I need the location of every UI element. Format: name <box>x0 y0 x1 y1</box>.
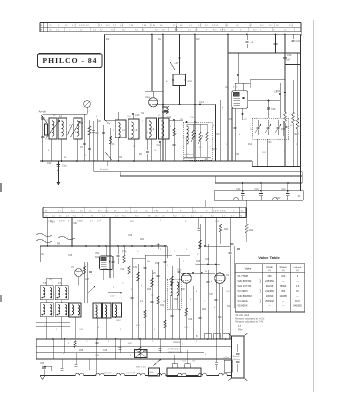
svg-text:V1a: V1a <box>145 95 150 99</box>
svg-text:C40: C40 <box>236 189 241 191</box>
svg-text:V1 77DB: V1 77DB <box>237 274 248 278</box>
svg-text:C.17 C.99: C.17 C.99 <box>126 373 136 375</box>
svg-text:6.8 W: 6.8 W <box>213 211 220 213</box>
svg-text:C22: C22 <box>47 162 52 165</box>
svg-text:2M: 2M <box>180 119 183 121</box>
svg-text:R C: R C <box>269 25 273 27</box>
svg-text:AC: AC <box>41 253 45 256</box>
svg-text:All volts rated: All volts rated <box>235 314 250 317</box>
svg-text:C31: C31 <box>133 267 138 269</box>
svg-text:R23: R23 <box>103 269 108 271</box>
svg-text:C10: C10 <box>135 114 140 117</box>
svg-text:V92: V92 <box>95 253 100 255</box>
svg-text:145-150: 145-150 <box>104 373 112 375</box>
svg-text:C36: C36 <box>188 319 193 321</box>
svg-text:R C: R C <box>98 211 102 213</box>
svg-text:M: M <box>142 30 144 32</box>
svg-text:R19: R19 <box>196 261 201 263</box>
svg-text:C45: C45 <box>103 350 108 352</box>
svg-text:Anode: Anode <box>266 266 273 269</box>
svg-text:M: M <box>91 216 93 218</box>
svg-text:245/90: 245/90 <box>266 295 274 298</box>
svg-text:Pilot: Pilot <box>238 328 243 331</box>
svg-text:6.8 W: 6.8 W <box>212 25 219 27</box>
svg-text:C37: C37 <box>209 294 214 296</box>
svg-text:C34: C34 <box>160 305 165 307</box>
svg-text:C17: C17 <box>213 148 218 151</box>
svg-text:C42: C42 <box>281 189 286 191</box>
svg-text:C.17: C.17 <box>110 296 115 298</box>
svg-text:Measure calculated at -A.2V.: Measure calculated at -A.2V. <box>235 317 265 320</box>
svg-text:90/245: 90/245 <box>266 285 274 288</box>
svg-text:C28: C28 <box>205 259 210 261</box>
svg-text:on Record: on Record <box>184 153 194 156</box>
svg-text:a.M switch: a.M switch <box>184 157 195 160</box>
svg-text:change circuit: change circuit <box>168 351 182 354</box>
svg-text:C/d: C/d <box>187 79 192 83</box>
svg-text:8uF: 8uF <box>218 317 223 319</box>
svg-text:R12: R12 <box>248 144 253 146</box>
svg-text:V3 42DX: V3 42DX <box>237 289 248 293</box>
svg-text:(V): (V) <box>268 270 271 272</box>
svg-text:R20: R20 <box>249 230 254 232</box>
svg-text:R17: R17 <box>295 134 300 136</box>
svg-text:(V): (V) <box>296 270 299 272</box>
svg-text:R11: R11 <box>155 262 160 265</box>
svg-text:C26: C26 <box>128 235 133 237</box>
svg-text:3M: 3M <box>147 261 150 263</box>
svg-text:V2b 80XXM: V2b 80XXM <box>237 279 251 283</box>
svg-text:R21: R21 <box>224 228 229 231</box>
svg-text:C25: C25 <box>68 255 73 257</box>
svg-text:Cathode: Cathode <box>293 266 302 269</box>
svg-text:C18: C18 <box>287 54 292 57</box>
svg-text:100/85: 100/85 <box>280 295 288 298</box>
svg-text:V1b: V1b <box>177 269 182 272</box>
svg-text:240/250: 240/250 <box>265 290 274 293</box>
svg-text:M50 C.05: M50 C.05 <box>136 367 146 369</box>
svg-text:6.8 W: 6.8 W <box>220 30 227 32</box>
svg-text:5uF: 5uF <box>286 59 291 62</box>
svg-text:Screen: Screen <box>280 266 288 269</box>
svg-text:10K: 10K <box>181 289 186 291</box>
svg-text:Aerial: Aerial <box>39 110 47 114</box>
svg-text:C24: C24 <box>235 154 240 156</box>
svg-text:R.switch: R.switch <box>100 168 109 171</box>
svg-text:R33: R33 <box>50 221 55 224</box>
svg-text:R24: R24 <box>140 239 145 241</box>
svg-text:245/250: 245/250 <box>265 280 274 283</box>
svg-text:R29: R29 <box>202 309 207 311</box>
svg-text:R C: R C <box>71 211 75 213</box>
svg-text:C(x): C(x) <box>62 165 67 168</box>
svg-text:C50: C50 <box>40 363 45 365</box>
svg-text:C38: C38 <box>271 108 276 111</box>
svg-text:R35: R35 <box>79 350 84 352</box>
svg-text:1W: 1W <box>250 129 253 131</box>
svg-text:250: 250 <box>268 275 273 278</box>
svg-text:V2a 1X77M: V2a 1X77M <box>237 284 251 288</box>
svg-text:C12: C12 <box>157 144 162 147</box>
svg-text:V4 42AA: V4 42AA <box>237 299 248 303</box>
svg-text:100: 100 <box>281 275 286 278</box>
svg-text:R26: R26 <box>147 289 152 291</box>
svg-text:C13: C13 <box>199 100 204 104</box>
svg-text:V1b: V1b <box>120 268 125 271</box>
svg-text:V3b 80MXM: V3b 80MXM <box>237 294 251 298</box>
svg-text:PHILCO - 84: PHILCO - 84 <box>43 56 98 65</box>
svg-text:C41: C41 <box>255 189 260 191</box>
svg-text:C34: C34 <box>267 142 272 144</box>
svg-text:R2: R2 <box>106 37 110 41</box>
svg-text:Valve: Valve <box>245 266 252 270</box>
svg-text:Valve Table: Valve Table <box>258 255 280 260</box>
svg-text:C20: C20 <box>296 40 301 43</box>
svg-text:a Rec: a Rec <box>224 357 229 359</box>
svg-text:340/350: 340/350 <box>293 305 302 308</box>
svg-text:PT4: PT4 <box>122 251 127 254</box>
svg-text:1M: 1M <box>163 301 166 303</box>
svg-text:C19: C19 <box>276 90 281 93</box>
svg-text:6.8 W: 6.8 W <box>220 211 227 213</box>
svg-text:~47: ~47 <box>174 61 179 65</box>
svg-text:85/90: 85/90 <box>280 285 287 288</box>
svg-text:16.5: 16.5 <box>295 300 300 303</box>
svg-text:R C: R C <box>260 25 264 27</box>
svg-text:R16: R16 <box>281 129 286 131</box>
svg-text:R28: R28 <box>174 299 179 301</box>
svg-text:on Record: on Record <box>230 356 239 358</box>
svg-text:N2: N2 <box>196 37 200 41</box>
svg-text:6.8 W: 6.8 W <box>59 221 66 223</box>
svg-text:T.B: T.B <box>43 283 47 285</box>
svg-text:V5 80XX: V5 80XX <box>237 304 248 308</box>
svg-text:250/240: 250/240 <box>265 300 274 303</box>
svg-text:250: 250 <box>281 290 286 293</box>
svg-text:M: M <box>114 211 116 213</box>
svg-text:R22: R22 <box>95 257 100 259</box>
svg-text:6.8 W: 6.8 W <box>79 25 86 27</box>
svg-text:R C: R C <box>106 25 110 27</box>
svg-text:C27: C27 <box>85 279 90 281</box>
svg-text:(V): (V) <box>282 270 285 272</box>
svg-text:Volume: Volume <box>173 341 182 344</box>
svg-text:M: M <box>45 211 47 213</box>
svg-text:W: W <box>205 271 207 273</box>
svg-text:Measure calculated at 7.4V.: Measure calculated at 7.4V. <box>235 320 264 323</box>
svg-text:on Record +: on Record + <box>168 348 181 351</box>
svg-text:1C: 1C <box>241 211 244 213</box>
